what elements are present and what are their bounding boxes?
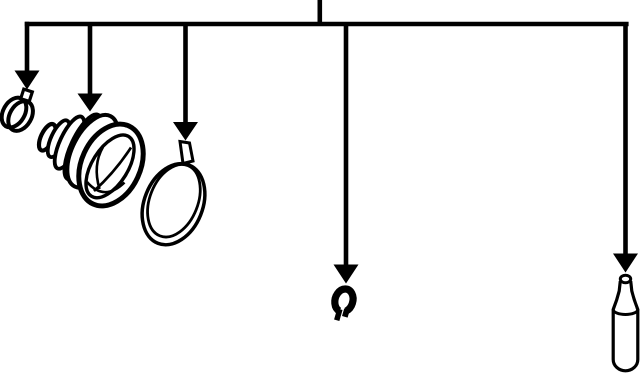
wire: drop 1 (to small clamp): [25, 22, 30, 72]
part: small boot clamp band: [0, 89, 38, 135]
tube shoulder seam: [613, 310, 638, 315]
large clamp buckle tab: [180, 142, 193, 164]
wire: drop 3 (to large clamp): [183, 26, 188, 123]
boot ridge 3: [49, 113, 90, 173]
wire: drop 4 (to circlip): [344, 26, 349, 265]
large clamp outer band ellipse: [131, 154, 217, 254]
circlip ring body: [332, 287, 355, 314]
circlip left foot: [334, 308, 342, 321]
arrow 3 (points at large clamp): [173, 122, 198, 141]
boot opening outer lip: [66, 114, 155, 217]
boot interior left wall line: [97, 147, 103, 189]
part: CV joint boot (bellows): [36, 107, 156, 216]
wire: horizontal header bus: [25, 22, 629, 27]
tube neck opening: [620, 275, 630, 283]
boot ridge 5: [57, 107, 129, 196]
part: grease tube: [613, 275, 638, 371]
part: large boot clamp: [131, 142, 217, 255]
wire: top stub from callout: [317, 0, 322, 24]
clamp band front ellipse: [3, 97, 38, 136]
boot interior bottom crescent line: [87, 182, 125, 192]
boot opening inner lip: [76, 127, 144, 206]
boot ridge 2: [43, 117, 73, 160]
arrow 4 (points at circlip): [334, 265, 359, 284]
wire: drop 5 (to grease tube): [623, 26, 628, 255]
boot ridge 1 (tip cap): [36, 122, 60, 153]
clamp band rear ellipse: [0, 93, 31, 132]
arrow 5 (points at grease tube): [613, 254, 638, 273]
wire: drop 2 (to boot): [88, 26, 93, 95]
boot ridge 4: [57, 110, 109, 184]
clamp buckle tab: [21, 89, 33, 101]
boot interior diagonal wall line: [94, 148, 131, 192]
tube body outline: [613, 281, 638, 371]
circlip right foot: [342, 308, 350, 317]
arrow 1 (points at small clamp): [15, 71, 40, 90]
arrow 2 (points at boot): [78, 94, 103, 112]
large clamp inner band edge line: [138, 157, 211, 245]
part: circlip (snap ring): [330, 287, 356, 323]
